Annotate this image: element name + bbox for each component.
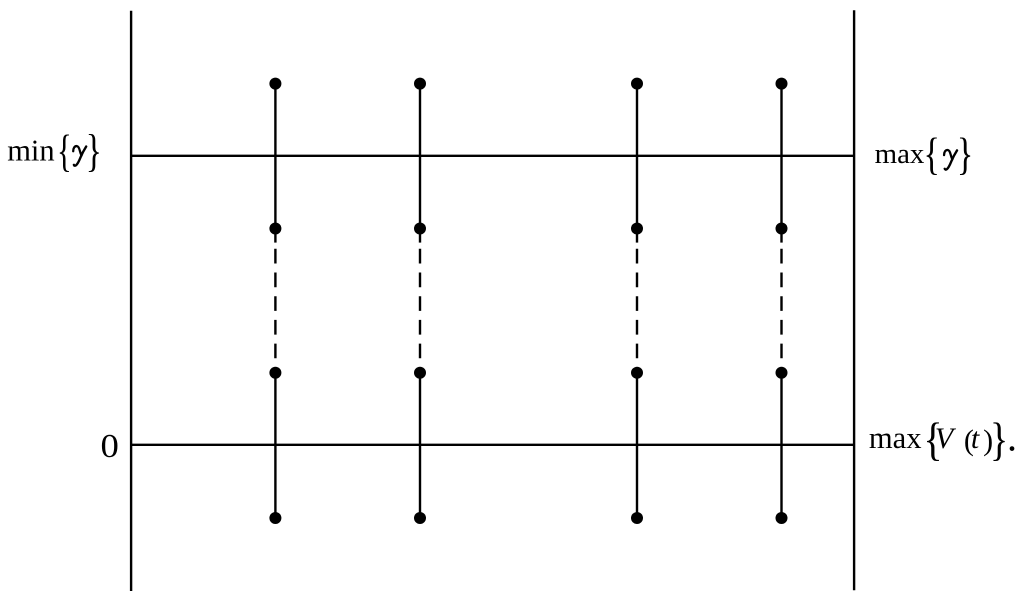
horizontal line zero level [131, 444, 854, 446]
svg-text:}: } [990, 414, 1008, 466]
svg-text:{: { [57, 126, 72, 177]
chain 3 bottom dot [631, 512, 643, 524]
chain 4 third dot [776, 367, 788, 379]
svg-text:.: . [1007, 415, 1017, 460]
chain 2 [414, 78, 426, 524]
right vertical axis line [853, 10, 855, 590]
chain 4 bottom dot [776, 512, 788, 524]
chain 4 second dot [776, 223, 788, 235]
gamma symbol of upper max label [944, 150, 957, 170]
chain 4 stub below second dot [780, 229, 782, 243]
chain 2 upper solid segment [419, 84, 421, 229]
svg-text:{: { [924, 128, 940, 179]
chain 1 dashed segment [274, 249, 276, 373]
chain 2 stub below second dot [419, 229, 421, 243]
chain 1 bottom dot [269, 512, 281, 524]
chain 1 second dot [269, 223, 281, 235]
label max{gamma} [875, 128, 974, 179]
chain 3 lower solid segment [636, 373, 638, 518]
chain 4 top dot [776, 78, 788, 90]
chain 2 third dot [414, 367, 426, 379]
chain 1 top dot [269, 78, 281, 90]
left vertical axis line [130, 11, 132, 591]
chain 4 [776, 78, 788, 524]
horizontal line min/max gamma [131, 155, 854, 157]
chain 3 top dot [631, 78, 643, 90]
chain 4 dashed segment [780, 249, 782, 373]
chain 1 third dot [269, 367, 281, 379]
chain 2 lower solid segment [419, 373, 421, 518]
svg-text:}: } [957, 128, 973, 179]
svg-text:0: 0 [100, 426, 118, 464]
chain 4 upper solid segment [780, 84, 782, 229]
chain 3 dashed segment [636, 249, 638, 373]
svg-text:min: min [7, 133, 54, 167]
chain 2 bottom dot [414, 512, 426, 524]
chain 3 stub below second dot [636, 229, 638, 243]
chain 3 upper solid segment [636, 84, 638, 229]
gamma symbol of min label [73, 146, 86, 166]
svg-text:}: } [86, 125, 102, 176]
chain 1 [269, 78, 281, 524]
chain 1 lower solid segment [274, 373, 276, 518]
label min{gamma} [7, 125, 102, 177]
chain 2 dashed segment [419, 249, 421, 373]
chain 1 upper solid segment [274, 84, 276, 229]
chain 2 second dot [414, 223, 426, 235]
svg-text:t: t [971, 422, 980, 455]
chain 3 second dot [631, 223, 643, 235]
svg-text:max: max [869, 421, 922, 455]
chain 2 top dot [414, 78, 426, 90]
svg-text:max: max [875, 138, 925, 170]
chain 3 [631, 78, 643, 524]
label max{V(t)}. [869, 414, 1017, 466]
chain 4 lower solid segment [780, 373, 782, 518]
chain 3 third dot [631, 367, 643, 379]
chain 1 stub below second dot [274, 229, 276, 243]
